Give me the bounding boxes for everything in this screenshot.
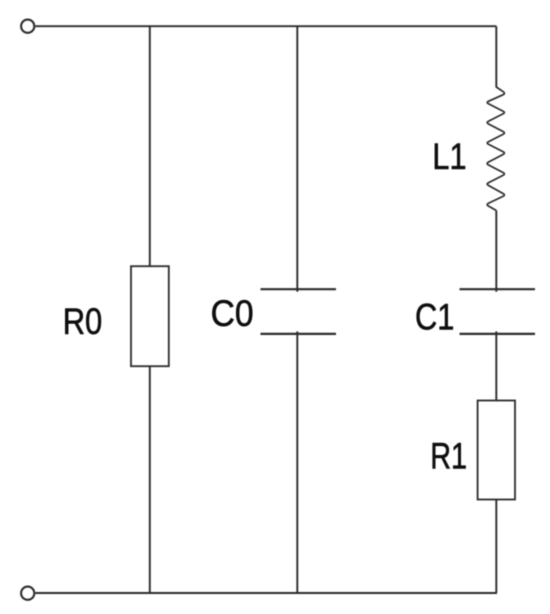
terminal (top-left input)	[21, 20, 34, 33]
svg-text:R0: R0	[63, 301, 103, 342]
svg-text:L1: L1	[432, 136, 466, 177]
resistor R0	[131, 266, 169, 366]
inductor L1	[487, 87, 504, 211]
wire R0 branch upper	[149, 26, 151, 266]
wire R0 branch lower	[149, 366, 151, 593]
wire bottom rail	[35, 592, 497, 594]
svg-text:R1: R1	[430, 436, 467, 477]
wire C0 branch lower	[296, 331, 298, 593]
terminal (bottom-left input)	[21, 587, 34, 600]
resistor R1	[478, 401, 515, 500]
wire C1 to R1	[495, 331, 497, 400]
capacitor C1	[460, 289, 536, 334]
wire R1 branch lower	[495, 500, 497, 594]
svg-text:C0: C0	[211, 293, 254, 334]
wire top rail	[35, 25, 496, 27]
wire C0 branch upper	[296, 26, 298, 292]
wire L1 to C1	[495, 211, 497, 292]
svg-text:C1: C1	[415, 297, 454, 338]
capacitor C0	[261, 289, 337, 334]
wire right branch top	[495, 26, 497, 87]
